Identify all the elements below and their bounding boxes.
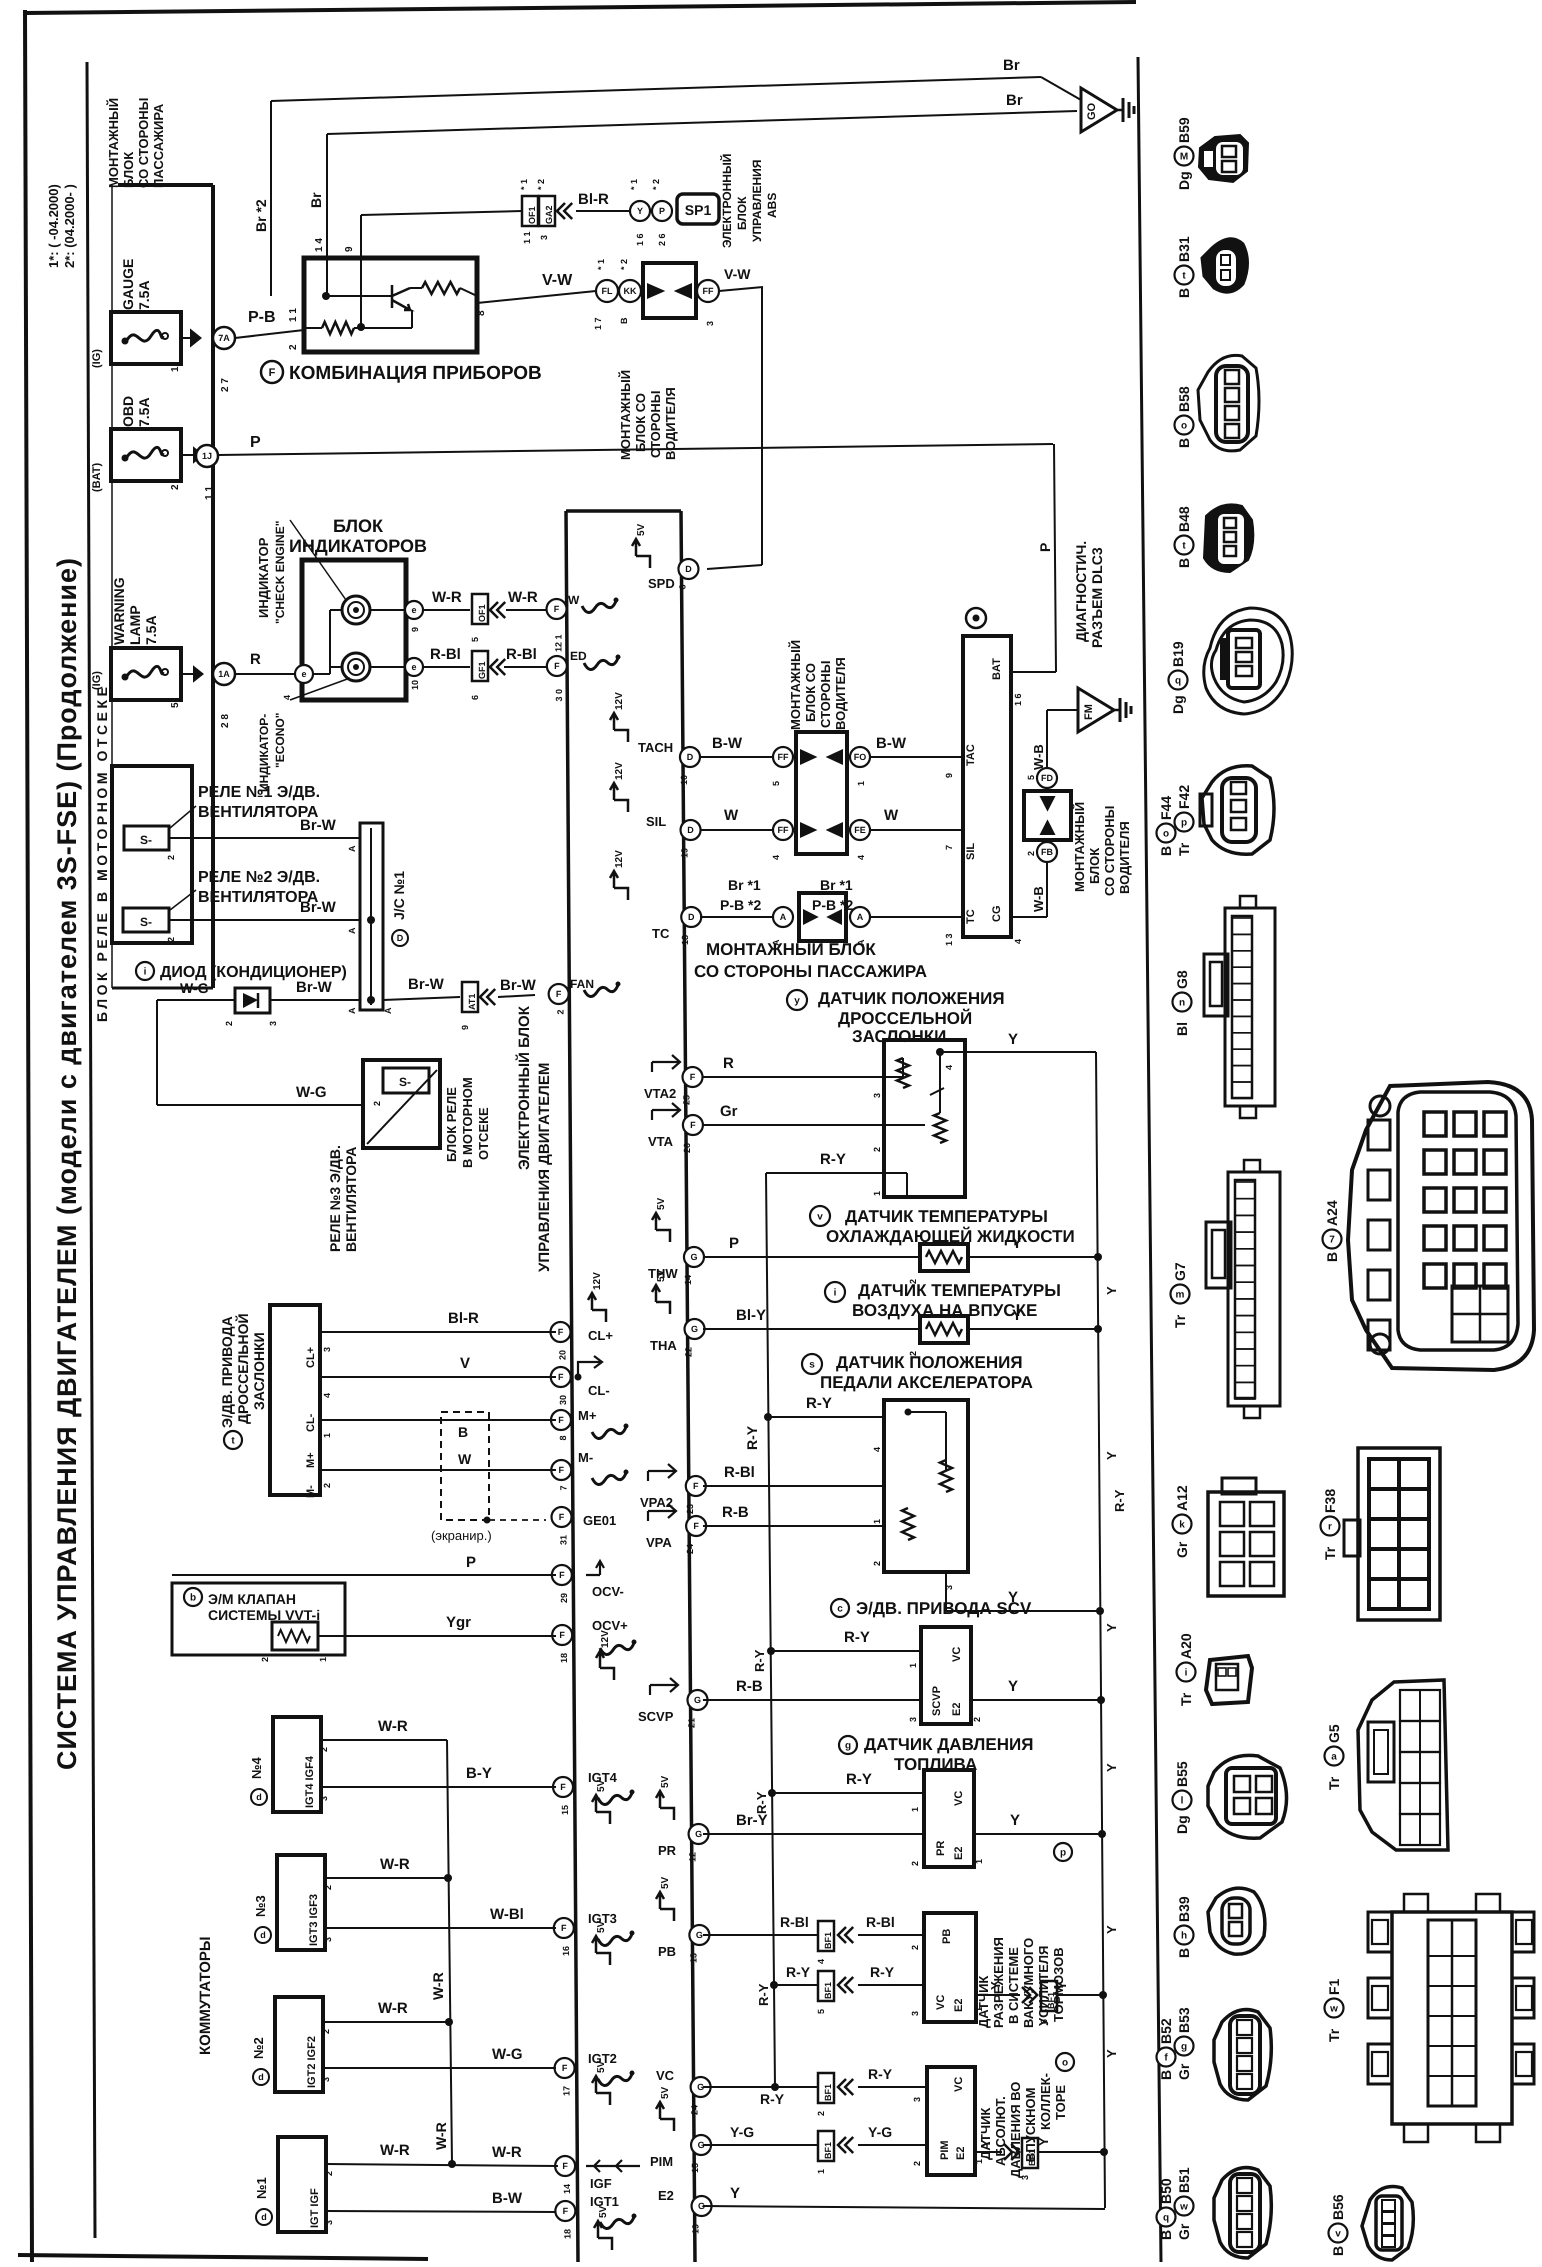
svg-text:18: 18 (559, 1653, 569, 1663)
svg-text:o: o (1163, 829, 1169, 840)
svg-text:3: 3 (539, 235, 549, 240)
svg-text:9: 9 (460, 1025, 470, 1030)
svg-text:2: 2 (816, 2111, 826, 2116)
outer page border left (25, 10, 32, 2262)
svg-text:KK: KK (624, 286, 637, 296)
svg-text:W-R: W-R (380, 2142, 410, 2159)
svg-text:4: 4 (944, 1065, 954, 1070)
svg-text:W-R: W-R (380, 1856, 410, 1873)
svg-text:СТОРОНЫ: СТОРОНЫ (818, 660, 833, 728)
svg-text:3: 3 (910, 2011, 920, 2016)
svg-text:G5: G5 (1326, 1724, 1342, 1743)
svg-text:M-: M- (305, 1485, 317, 1498)
svg-text:VTA2: VTA2 (644, 1086, 676, 1101)
svg-text:R-Y: R-Y (870, 1964, 895, 1980)
svg-text:2: 2 (323, 1885, 333, 1890)
connector B19 drawing (1204, 608, 1293, 714)
svg-text:M+: M+ (578, 1408, 597, 1423)
svg-text:УПРАВЛЕНИЯ ДВИГАТЕЛЕМ: УПРАВЛЕНИЯ ДВИГАТЕЛЕМ (536, 1063, 553, 1272)
svg-text:2: 2 (288, 344, 299, 350)
svg-text:СИСТЕМА УПРАВЛЕНИЯ ДВИГАТЕЛЕМ: СИСТЕМА УПРАВЛЕНИЯ ДВИГАТЕЛЕМ (модели с … (52, 558, 82, 1770)
connector B48 drawing (1204, 504, 1253, 572)
svg-text:y: y (794, 996, 800, 1007)
relay no1 (124, 826, 169, 850)
svg-text:F: F (554, 604, 560, 614)
svg-text:v: v (817, 1212, 823, 1223)
connector B52/B53 drawing (1214, 2010, 1271, 2100)
lamp ECONO (342, 653, 370, 681)
svg-text:ПЕДАЛИ АКСЕЛЕРАТОРА: ПЕДАЛИ АКСЕЛЕРАТОРА (820, 1373, 1033, 1392)
ECU pin PIM (691, 2135, 711, 2155)
svg-text:w: w (1179, 2202, 1188, 2213)
svg-text:W-R: W-R (378, 1718, 408, 1735)
coolant temp sensor box (920, 1244, 968, 1271)
svg-text:FF: FF (778, 825, 789, 835)
throttle motor box (270, 1305, 320, 1495)
svg-text:B: B (1176, 1948, 1192, 1958)
wire TC (700, 916, 773, 918)
svg-text:2: 2 (324, 2171, 334, 2176)
svg-text:4: 4 (856, 855, 866, 860)
svg-text:R-Bl: R-Bl (430, 646, 461, 663)
ECU pin CL- (551, 1367, 571, 1387)
svg-text:IGT3 IGF3: IGT3 IGF3 (308, 1894, 320, 1946)
svg-text:3: 3 (324, 2220, 334, 2225)
svg-text:GF1: GF1 (477, 661, 487, 679)
wire Br*2 (270, 101, 272, 296)
svg-text:Tr: Tr (1178, 1692, 1194, 1706)
manifold absolute pressure sensor box (927, 2067, 975, 2175)
svg-text:TC: TC (965, 909, 977, 924)
ECU pin VC (691, 2077, 711, 2097)
connector B59 drawing (1199, 135, 1248, 182)
svg-text:2: 2 (372, 1101, 382, 1106)
svg-text:d: d (261, 2212, 267, 2222)
svg-text:Y: Y (1008, 1678, 1018, 1695)
svg-text:ДАТЧИК ПОЛОЖЕНИЯ: ДАТЧИК ПОЛОЖЕНИЯ (836, 1353, 1023, 1372)
svg-text:РАЗЪЕМ DLC3: РАЗЪЕМ DLC3 (1089, 547, 1105, 648)
svg-text:R-B: R-B (722, 1504, 749, 1521)
svg-text:i: i (144, 967, 147, 978)
svg-text:R-Y: R-Y (846, 1771, 872, 1788)
wire P long to DLC3 (218, 444, 1053, 455)
connector 1J obd (196, 445, 218, 467)
svg-text:12: 12 (688, 1852, 698, 1862)
wire M- (320, 1469, 556, 1471)
svg-text:2: 2 (322, 1483, 332, 1488)
svg-text:B: B (1176, 288, 1192, 298)
TC passthrough (799, 893, 846, 941)
svg-text:R-Y: R-Y (754, 1791, 769, 1814)
svg-text:s: s (809, 1360, 815, 1371)
G7 strip body (1228, 1172, 1280, 1406)
svg-text:J/C №1: J/C №1 (391, 871, 407, 920)
svg-text:F: F (558, 1415, 564, 1425)
wire R to indicator block (235, 673, 295, 675)
MAP E2 out (975, 2151, 1002, 2153)
ECU pin M+ (551, 1410, 571, 1430)
igniter No1 (278, 2137, 326, 2232)
svg-text:BF1: BF1 (1027, 2149, 1037, 2166)
svg-text:Y-G: Y-G (868, 2124, 892, 2140)
svg-text:TC: TC (652, 926, 670, 941)
svg-text:P: P (729, 1235, 739, 1252)
svg-text:6: 6 (470, 695, 480, 700)
svg-text:1: 1 (908, 1663, 918, 1668)
svg-text:1: 1 (856, 781, 866, 786)
R-Bl output row (370, 666, 405, 668)
svg-text:МОНТАЖНЫЙ: МОНТАЖНЫЙ (618, 370, 633, 460)
svg-text:FB: FB (1041, 847, 1053, 857)
svg-text:E2: E2 (953, 1847, 965, 1860)
svg-text:14: 14 (683, 1275, 693, 1285)
wire Br (326, 134, 328, 296)
svg-text:5V: 5V (596, 1920, 607, 1933)
ECU right edge (681, 511, 695, 2262)
wire Y top (936, 1048, 944, 1056)
svg-text:7: 7 (558, 1485, 568, 1490)
svg-text:B: B (1158, 846, 1174, 856)
svg-text:2: 2 (319, 1747, 329, 1752)
svg-text:k: k (1179, 1520, 1185, 1531)
wire Br-W relay2 (169, 919, 360, 921)
svg-text:SIL: SIL (965, 843, 977, 860)
svg-text:3: 3 (322, 1347, 332, 1352)
svg-text:ABS: ABS (765, 193, 779, 218)
ECU pin IGT4 (553, 1777, 573, 1797)
svg-text:R-Bl: R-Bl (866, 1914, 895, 1930)
wire R-B VPA (703, 1525, 884, 1527)
svg-text:2: 2 (972, 1717, 982, 1722)
wire R-B SCVP (703, 1699, 921, 1701)
ECU pin VPA (686, 1516, 706, 1536)
svg-text:B58: B58 (1176, 386, 1192, 412)
throttle position sensor label (787, 990, 807, 1010)
svg-text:3: 3 (872, 1093, 882, 1098)
svg-text:IGT4 IGF4: IGT4 IGF4 (304, 1755, 316, 1808)
svg-text:31: 31 (559, 1535, 569, 1545)
svg-text:10: 10 (679, 775, 689, 785)
svg-text:ВАКУУМНОГО: ВАКУУМНОГО (1021, 1938, 1036, 2028)
svg-text:IGF: IGF (590, 2176, 612, 2191)
svg-text:SCVP: SCVP (638, 1709, 674, 1724)
svg-text:m: m (1176, 1290, 1185, 1301)
ECU left edge (566, 511, 578, 2262)
ECU pin VTA2 (683, 1067, 703, 1087)
svg-text:Tr: Tr (1326, 1776, 1342, 1790)
svg-text:1*: ( -04.2000): 1*: ( -04.2000) (46, 184, 61, 268)
svg-text:F44: F44 (1158, 796, 1174, 820)
svg-text:5V: 5V (636, 523, 647, 536)
svg-text:(BAT): (BAT) (91, 463, 103, 492)
svg-text:29: 29 (559, 1593, 569, 1603)
svg-text:3: 3 (321, 2077, 331, 2082)
svg-text:A: A (347, 927, 357, 934)
svg-text:20: 20 (558, 1350, 568, 1360)
wire Ygr OCV+ (318, 1635, 556, 1637)
svg-text:9: 9 (344, 246, 355, 252)
SCV motor (831, 1599, 849, 1617)
svg-text:D: D (687, 752, 694, 762)
svg-text:d: d (256, 1792, 262, 1802)
svg-text:B-Y: B-Y (466, 1765, 492, 1782)
svg-text:3: 3 (912, 2097, 922, 2102)
svg-text:Y: Y (637, 206, 643, 216)
connector B39 drawing (1208, 1888, 1265, 1954)
relay block box (112, 766, 192, 943)
svg-text:3: 3 (908, 1717, 918, 1722)
svg-text:Tr: Tr (1322, 1546, 1338, 1560)
svg-text:5: 5 (816, 2009, 826, 2014)
svg-text:4: 4 (282, 695, 292, 700)
svg-text:ED: ED (570, 649, 587, 663)
svg-text:B: B (1176, 558, 1192, 568)
svg-text:7: 7 (1329, 1235, 1335, 1246)
svg-text:B48: B48 (1176, 506, 1192, 532)
ground GO (1081, 88, 1117, 132)
svg-text:"CHECK ENGINE": "CHECK ENGINE" (273, 521, 287, 624)
svg-text:9: 9 (410, 627, 420, 632)
svg-text:2: 2 (224, 1021, 234, 1026)
svg-text:W-B: W-B (1031, 744, 1046, 770)
svg-text:Y: Y (1104, 1451, 1119, 1460)
svg-text:WARNING: WARNING (111, 577, 127, 645)
pin circle FL (596, 280, 618, 302)
svg-text:ВОДИТЕЛЯ: ВОДИТЕЛЯ (1117, 821, 1132, 894)
svg-text:БЛОК: БЛОК (735, 196, 749, 230)
connector 1A warning (213, 663, 235, 685)
ECU pin PB (689, 1925, 709, 1945)
svg-text:1: 1 (170, 366, 181, 372)
fuel pressure sensor box (924, 1770, 974, 1867)
svg-text:R-Y: R-Y (744, 1425, 760, 1450)
svg-text:* 1: * 1 (596, 259, 606, 270)
ECU pin IGT2 (555, 2058, 575, 2078)
svg-text:F: F (562, 2161, 568, 2171)
svg-text:26: 26 (682, 1143, 692, 1153)
svg-text:"ECONO": "ECONO" (273, 713, 287, 768)
svg-text:№3: №3 (253, 1895, 268, 1917)
svg-text:7.5A: 7.5A (143, 615, 159, 645)
svg-text:P: P (659, 206, 665, 216)
W-R bus (447, 1740, 452, 2164)
svg-text:D: D (685, 564, 692, 574)
svg-text:Y: Y (730, 2185, 740, 2202)
svg-text:2: 2 (556, 1009, 566, 1014)
svg-text:2: 2 (166, 855, 176, 860)
svg-text:P-B *2: P-B *2 (812, 897, 853, 913)
svg-text:V: V (460, 1355, 470, 1372)
svg-text:3: 3 (705, 321, 715, 326)
air temp sensor (825, 1282, 845, 1302)
svg-text:(экранир.): (экранир.) (431, 1528, 492, 1543)
svg-text:БЛОК РЕЛЕ: БЛОК РЕЛЕ (444, 1087, 459, 1162)
igniter wires (321, 1739, 447, 1741)
svg-text:Y: Y (988, 1981, 1003, 1990)
svg-text:A20: A20 (1178, 1633, 1194, 1659)
wire V-W (477, 291, 596, 303)
svg-text:5V: 5V (660, 1775, 671, 1788)
svg-text:B: B (619, 317, 629, 324)
svg-text:19: 19 (691, 2224, 701, 2234)
svg-text:F: F (693, 1521, 699, 1531)
svg-text:24: 24 (685, 1544, 695, 1554)
svg-text:2: 2 (1026, 851, 1036, 856)
svg-text:A: A (857, 912, 864, 922)
svg-text:E2: E2 (953, 1999, 965, 2012)
svg-text:1: 1 (910, 1807, 920, 1812)
svg-text:F: F (558, 1327, 564, 1337)
svg-text:Э/ДВ. ПРИВОДА: Э/ДВ. ПРИВОДА (219, 1316, 235, 1428)
svg-text:ЭЛЕКТРОННЫЙ БЛОК: ЭЛЕКТРОННЫЙ БЛОК (515, 1005, 533, 1170)
svg-text:6: 6 (677, 584, 687, 589)
svg-text:Tr: Tr (1176, 842, 1192, 856)
svg-text:B-W: B-W (492, 2190, 523, 2207)
circle FF tach (773, 747, 793, 767)
outer page border bottom (partial) (18, 2255, 428, 2259)
svg-text:Bl-R: Bl-R (448, 1310, 479, 1327)
svg-text:B-W: B-W (876, 735, 907, 752)
svg-text:4: 4 (872, 1447, 882, 1452)
svg-text:4: 4 (1013, 939, 1023, 944)
svg-text:1: 1 (318, 1657, 328, 1662)
igniter No4 (273, 1717, 321, 1812)
svg-text:3: 3 (268, 1021, 278, 1026)
SP1 box (677, 194, 719, 224)
svg-text:W-Bl: W-Bl (490, 1906, 524, 1923)
ECU pin TACH (680, 747, 700, 767)
svg-text:9: 9 (944, 773, 954, 778)
svg-text:ДРОССЕЛЬНОЙ: ДРОССЕЛЬНОЙ (235, 1313, 251, 1424)
svg-text:W-G: W-G (180, 980, 209, 996)
svg-text:12V: 12V (592, 1272, 603, 1290)
svg-text:PB: PB (658, 1944, 676, 1959)
svg-text:R-Y: R-Y (820, 1151, 846, 1168)
svg-text:V-W: V-W (724, 266, 751, 282)
wire R-Y pedal (764, 1413, 772, 1421)
svg-text:R-Y: R-Y (752, 1649, 767, 1672)
pin circle *1 (630, 201, 650, 221)
wire Gr VTA (703, 1124, 925, 1126)
svg-text:B50: B50 (1158, 2178, 1174, 2204)
svg-text:2: 2 (872, 1561, 882, 1566)
ECU pin OCV- (552, 1565, 572, 1585)
wire Br-W diode to JC (270, 999, 360, 1001)
svg-text:B56: B56 (1330, 2194, 1346, 2220)
svg-text:P: P (1037, 543, 1053, 552)
svg-text:TACH: TACH (638, 740, 673, 755)
svg-text:D: D (397, 933, 404, 943)
svg-text:B: B (1330, 2246, 1346, 2256)
svg-text:F: F (559, 1570, 565, 1580)
svg-text:FO: FO (854, 752, 867, 762)
svg-text:2 7: 2 7 (220, 378, 231, 392)
svg-text:FF: FF (778, 752, 789, 762)
relay no3 block (363, 1060, 440, 1148)
svg-text:* 2: * 2 (536, 179, 546, 190)
svg-text:Y: Y (1008, 1031, 1018, 1048)
svg-text:B55: B55 (1174, 1761, 1190, 1787)
svg-text:F: F (690, 1072, 696, 1082)
svg-text:VTA: VTA (648, 1134, 674, 1149)
svg-text:BF1: BF1 (1046, 1992, 1056, 2009)
svg-text:Tr: Tr (1326, 2028, 1342, 2042)
svg-text:УСИЛИТЕЛЯ: УСИЛИТЕЛЯ (1036, 1946, 1051, 2026)
svg-text:F38: F38 (1322, 1489, 1338, 1513)
svg-text:Gr: Gr (1176, 2063, 1192, 2080)
svg-text:1: 1 (974, 1859, 984, 1864)
cluster label (261, 361, 283, 383)
svg-text:G8: G8 (1174, 970, 1190, 989)
svg-text:W: W (724, 807, 739, 824)
svg-text:7.5A: 7.5A (136, 397, 152, 427)
connector A24 drawing (1348, 1082, 1534, 1370)
svg-text:PIM: PIM (650, 2154, 673, 2169)
svg-text:B: B (458, 1424, 468, 1440)
wire P THW (703, 1256, 920, 1258)
svg-text:Br-W: Br-W (300, 899, 337, 916)
svg-text:A12: A12 (1174, 1485, 1190, 1511)
svg-text:BF1: BF1 (823, 2142, 833, 2159)
svg-text:МОНТАЖНЫЙ: МОНТАЖНЫЙ (788, 640, 803, 730)
svg-text:r: r (1328, 1522, 1332, 1533)
svg-text:Br: Br (1006, 92, 1023, 109)
svg-text:SCVP: SCVP (931, 1686, 943, 1716)
svg-text:* 2: * 2 (619, 259, 629, 270)
wire Br-Y PR (703, 1833, 924, 1835)
svg-text:ИНДИКАТОРОВ: ИНДИКАТОРОВ (289, 536, 427, 556)
svg-text:W-G: W-G (296, 1084, 327, 1101)
svg-text:2 6: 2 6 (657, 233, 667, 246)
svg-text:M+: M+ (305, 1452, 317, 1468)
svg-text:2*: (04.2000- ): 2*: (04.2000- ) (62, 184, 77, 268)
svg-text:W-R: W-R (430, 1972, 446, 2000)
svg-text:5V: 5V (656, 1197, 667, 1210)
driver JB passthrough box (796, 732, 847, 854)
svg-text:22: 22 (684, 1347, 694, 1357)
fuel pressure sensor (839, 1736, 857, 1754)
svg-text:R-Y: R-Y (868, 2066, 893, 2082)
svg-text:W-G: W-G (492, 2046, 523, 2063)
igniter No2 (275, 1997, 323, 2092)
svg-text:F: F (554, 661, 560, 671)
svg-text:R-Bl: R-Bl (724, 1464, 755, 1481)
svg-text:h: h (1181, 1931, 1187, 1942)
svg-text:ЗАСЛОНКИ: ЗАСЛОНКИ (852, 1027, 946, 1046)
svg-text:1J: 1J (202, 451, 212, 461)
svg-text:1 6: 1 6 (1013, 693, 1023, 706)
ECU pin FAN (549, 984, 569, 1004)
svg-text:12V: 12V (614, 762, 625, 780)
svg-text:ПАССАЖИРА: ПАССАЖИРА (151, 103, 166, 188)
svg-text:q: q (1163, 2213, 1169, 2224)
A12 body (1208, 1492, 1284, 1596)
connector B55 drawing (1208, 1755, 1287, 1838)
svg-text:12V: 12V (614, 850, 625, 868)
wire P-B (235, 330, 304, 338)
svg-text:21: 21 (687, 1718, 697, 1728)
svg-text:M: M (1180, 152, 1188, 163)
W-R output row (370, 609, 405, 611)
svg-text:Br: Br (1003, 57, 1020, 74)
BAT wire (1011, 671, 1056, 673)
svg-text:15: 15 (560, 1805, 570, 1815)
svg-text:ВОДИТЕЛЯ: ВОДИТЕЛЯ (833, 657, 848, 730)
ECU pin SCVP (688, 1690, 708, 1710)
svg-text:18: 18 (680, 935, 690, 945)
svg-text:P: P (466, 1554, 476, 1571)
svg-text:e: e (411, 662, 416, 672)
